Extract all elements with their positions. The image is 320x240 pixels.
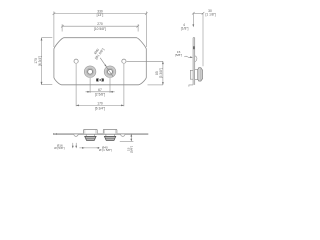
side view neck (195, 70, 198, 80)
svg-text:Ø [1 5/8"]: Ø [1 5/8"] (99, 148, 112, 152)
side view mark (193, 46, 195, 49)
svg-text:[2 5/8"]: [2 5/8"] (95, 92, 105, 96)
fitting right bore (108, 69, 113, 74)
svg-text:[6 3/4"]: [6 3/4"] (38, 56, 42, 66)
fitting left flange (84, 66, 96, 78)
dim 170 left (42, 38, 53, 85)
svg-text:[5/8"]: [5/8"] (175, 53, 182, 57)
leader diameter 40 (100, 58, 113, 77)
dim 30 (192, 12, 204, 66)
svg-text:[1 1/8"]: [1 1/8"] (206, 13, 216, 17)
bottom view nut right (106, 134, 114, 136)
svg-text:170: 170 (97, 101, 103, 105)
hole right small (122, 59, 126, 63)
fitting right thread (107, 68, 114, 75)
side view plate strip (193, 38, 195, 85)
bottom view dimple right (121, 134, 125, 136)
dim 170 bottom (76, 64, 124, 106)
fitting right flange (104, 66, 116, 78)
hole left small (74, 59, 78, 63)
dim 85 right (127, 61, 163, 85)
svg-text:[10 5/8"]: [10 5/8"] (94, 27, 106, 31)
svg-text:67: 67 (98, 88, 102, 92)
dim 4 leader (192, 13, 194, 24)
side view bottom foot (189, 85, 193, 87)
svg-text:Ø [5/8"]: Ø [5/8"] (54, 146, 65, 150)
plate outline top view (54, 38, 146, 85)
svg-text:[13"]: [13"] (97, 13, 104, 17)
bottom view cap left (84, 129, 98, 133)
dim diameter 40 bottom (79, 147, 99, 149)
bottom view nut left (86, 134, 94, 136)
svg-text:[1/8"]: [1/8"] (181, 27, 189, 31)
bottom view dimple left (74, 134, 78, 136)
svg-text:270: 270 (97, 22, 103, 26)
fitting left thread (87, 68, 94, 75)
logo mark (96, 79, 103, 82)
dim 67 (86, 78, 115, 93)
label diameter 40 (91, 45, 105, 60)
bottom view plate line (54, 133, 149, 135)
dim 270 (61, 24, 139, 31)
fitting left bore (88, 69, 93, 74)
dim 330 (53, 11, 148, 47)
svg-text:[6 3/4"]: [6 3/4"] (95, 106, 105, 110)
side view hex (198, 68, 203, 81)
side view back nut (190, 70, 193, 79)
dim 15 side (184, 56, 190, 57)
dim 15 bottom (120, 134, 134, 142)
leader arrows d16 (72, 143, 74, 146)
svg-text:[5/8"]: [5/8"] (130, 146, 134, 153)
svg-text:[3 3/8"]: [3 3/8"] (159, 68, 163, 78)
bottom view cap right (103, 129, 117, 133)
